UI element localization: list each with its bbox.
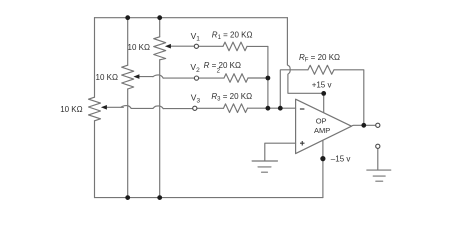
- wire pot3 branch lower: [94, 121, 96, 198]
- junction dot +15V at op-amp: [321, 91, 326, 96]
- svg-text:10 KΩ: 10 KΩ: [96, 73, 118, 82]
- wire top rail: [95, 17, 288, 19]
- terminal output upper: [376, 123, 380, 127]
- svg-text:V3: V3: [191, 93, 201, 105]
- arrow wiper P3: [101, 105, 107, 110]
- arrow wiper P2: [133, 74, 139, 79]
- junction dot feedback at summing line: [278, 106, 283, 111]
- terminal output lower: [376, 144, 380, 148]
- svg-text:AMP: AMP: [314, 126, 330, 135]
- wire P2 wiper left segment: [139, 76, 154, 78]
- op-amp minus sign: [300, 108, 305, 110]
- wire pot1 branch lower: [159, 60, 161, 198]
- svg-text:V2: V2: [190, 62, 200, 74]
- wire RF to output node: [334, 70, 364, 126]
- junction dot bottom rail pot1: [157, 195, 162, 200]
- wire lower output terminal to ground: [377, 149, 379, 170]
- wire R3 to inverting input: [248, 107, 296, 109]
- wire hop to V2 terminal: [163, 77, 194, 79]
- resistor R1 20K body: [223, 42, 247, 51]
- wire V1 to R1: [199, 45, 223, 47]
- wire P3 wiper left segment: [107, 106, 124, 108]
- junction dot R2 at summing line: [266, 76, 271, 81]
- wire feedback riser from summing junction: [280, 70, 308, 108]
- op-amp plus sign: [300, 141, 305, 146]
- svg-text:10 KΩ: 10 KΩ: [60, 105, 82, 114]
- wire +15V stub into op-amp: [323, 93, 325, 112]
- wire hop over pot1 line (V2 row): [153, 75, 163, 78]
- svg-text:10 KΩ: 10 KΩ: [128, 43, 150, 52]
- resistor RF 20K body: [308, 65, 334, 74]
- wire R1 to summing line: [247, 45, 268, 47]
- wire V2 to R2: [199, 77, 224, 79]
- wire summing vertical A: [267, 46, 269, 108]
- wire R2 to summing junction: [248, 77, 268, 79]
- junction dot -15V at op-amp: [320, 156, 325, 161]
- svg-text:OP: OP: [316, 117, 327, 126]
- svg-text:R = 20 KΩ: R = 20 KΩ: [204, 61, 241, 70]
- arrow wiper P1: [165, 44, 171, 49]
- wire hop to V3 terminal: [163, 108, 193, 110]
- terminal V3: [193, 106, 197, 110]
- svg-text:R1 = 20 KΩ: R1 = 20 KΩ: [212, 31, 253, 42]
- wire +15V supply drop with hop over RF wire: [287, 18, 323, 94]
- potentiometer P3 10K body: [89, 97, 101, 121]
- wire V3 row middle segment: [131, 107, 153, 109]
- wire hop over pot1 line (V3 row): [153, 106, 163, 109]
- wire non-inverting input to ground: [265, 143, 296, 161]
- wire pot2 branch upper: [127, 18, 129, 65]
- ground G1 at non-inverting input: [252, 161, 277, 172]
- junction dot top rail pot2: [125, 15, 130, 20]
- wire pot2 branch lower: [127, 89, 129, 198]
- svg-text:+15 v: +15 v: [312, 81, 332, 90]
- ground G2 at output jack: [367, 170, 391, 181]
- wire bottom rail: [95, 197, 323, 199]
- potentiometer P1 10K body: [154, 37, 166, 60]
- svg-text:R3 = 20 KΩ: R3 = 20 KΩ: [211, 92, 252, 103]
- wire -15V riser from bottom rail: [322, 140, 324, 197]
- wire V3 to R3: [197, 107, 224, 109]
- wire op-amp output: [352, 124, 376, 127]
- junction dot bottom rail pot2: [125, 195, 130, 200]
- svg-text:V1: V1: [191, 31, 201, 43]
- svg-text:–15 v: –15 v: [331, 154, 351, 163]
- junction dot top rail pot1: [157, 15, 162, 20]
- resistor R2 20K body: [224, 74, 248, 83]
- wire hop over pot2 line (V3 row): [121, 106, 131, 109]
- op-amp U1 triangle: [296, 99, 352, 153]
- junction dot R3 at summing line: [266, 106, 271, 111]
- terminal V2: [194, 76, 198, 80]
- junction dot output feedback node: [361, 123, 366, 128]
- wire pot3 branch upper: [94, 18, 96, 98]
- resistor R3 20K body: [224, 104, 248, 113]
- svg-text:RF = 20 KΩ: RF = 20 KΩ: [299, 53, 340, 64]
- wire P1 wiper to V1 terminal: [170, 45, 194, 47]
- potentiometer P2 10K body: [122, 65, 134, 89]
- wire pot1 branch upper: [159, 18, 161, 37]
- terminal V1: [194, 44, 198, 48]
